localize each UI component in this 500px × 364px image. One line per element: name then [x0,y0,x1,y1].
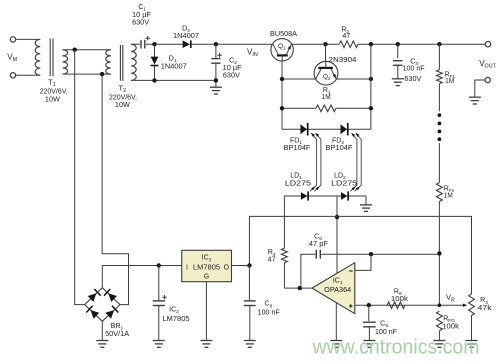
node op-amp output [298,286,302,290]
resistor RF1 [438,44,440,70]
node IC2 cap top [157,263,161,267]
wire right AC column with jog [102,74,128,305]
bridge rectifier BR1 [85,288,120,322]
node C2 bottom [214,78,218,82]
node IC3 output [247,263,251,267]
transformer T2 secondary winding [131,44,136,80]
svg-text:IC2: IC2 [169,307,179,316]
input terminal VM top [10,37,15,42]
resistor R6 [387,302,405,309]
svg-text:630V: 630V [132,20,149,27]
svg-text:1M: 1M [322,94,331,101]
transistor Q2 2N3904 [314,61,338,85]
op-amp minus sign [349,270,352,272]
output terminal VOUT lower [485,77,490,82]
wire Q2 collector [325,44,327,61]
node junction top link [73,48,77,52]
wire FD row [282,128,371,130]
wire T2 secondary top to C1 [131,43,140,45]
svg-text:LD275: LD275 [331,181,357,188]
wire VM bottom to T1 [16,74,41,76]
light arrows optocoupler 2 [350,133,357,191]
wire R4 column from LD row [283,196,285,248]
node C3 top [396,42,400,46]
svg-text:47 pF: 47 pF [309,241,328,248]
svg-text:10W: 10W [115,102,130,109]
light arrows optocoupler 1 [310,133,317,191]
svg-text:1N4007: 1N4007 [173,33,199,40]
node emitter-base left [280,77,284,81]
svg-text:O: O [224,264,230,271]
node D1 top [152,42,156,46]
svg-text:100 nF: 100 nF [258,310,280,317]
node C9 tap [367,303,371,307]
svg-text:VR: VR [446,293,455,304]
diode D2 [183,40,190,48]
node RF1 top [437,42,441,46]
wire LD row to ground [365,196,367,205]
svg-text:100k: 100k [391,296,409,303]
svg-text:220V/6V,: 220V/6V, [40,88,68,95]
resistor R2 [339,41,358,48]
node feedback chain tap [437,251,441,255]
wire T2 secondary bottom [131,79,216,81]
transistor Q1 BU508A [271,39,293,61]
wire op-amp Vminus to ground [335,303,337,341]
svg-text:www.cntronics.com: www.cntronics.com [312,336,480,359]
svg-text:BP104F: BP104F [284,145,311,152]
led LD1 LD275 [301,192,307,200]
wire Q2 emitter out [336,78,371,80]
potentiometer R3 wiper arrow [463,304,467,307]
svg-text:BU508A: BU508A [270,31,297,38]
bridge diode bottom-left [91,310,100,319]
svg-text:G: G [204,274,209,281]
svg-text:50V/1A: 50V/1A [105,331,129,338]
transformer T1 secondary winding [63,50,68,74]
svg-text:VM: VM [7,53,17,64]
ground IC3 G [200,341,212,348]
wire noninverting input to R3 [355,304,463,306]
node Q2 collector [323,42,327,46]
node C2 top [214,42,218,46]
wire IC3 output [232,265,250,267]
wire to inverting input [355,254,371,270]
capacitor C3 [397,44,399,58]
capacitor IC2 (LM7805 label) [158,266,160,301]
wire IC3 G to ground [205,282,207,341]
svg-text:I: I [186,264,188,271]
photodiode FD2 BP104F [341,124,348,134]
capacitor C9 [368,305,370,321]
ground C2 [210,87,222,94]
resistor RFG [437,311,443,331]
ground RFG [433,341,445,348]
node R1 right [369,106,373,110]
svg-text:220V/6V,: 220V/6V, [109,95,137,102]
bridge diode left-top [88,293,97,302]
node Q2 emitter right [369,77,373,81]
ground IC2 cap [153,341,165,348]
node D1 bottom [152,78,156,82]
svg-text:47: 47 [268,256,276,263]
input terminal VM bottom [10,73,15,78]
svg-text:47: 47 [342,33,350,40]
wire Q1 emitter down [281,61,283,129]
ground VOUT [469,97,481,104]
node C6 right [369,252,373,256]
svg-text:2N3904: 2N3904 [329,57,357,64]
svg-text:LD275: LD275 [285,181,311,188]
wire C1 to D2 [146,43,183,45]
regulator IC3 LM7805 box [182,250,232,281]
svg-text:1M: 1M [444,193,453,200]
resistor R4 [282,248,288,262]
svg-text:C8: C8 [265,301,273,310]
wire LD row to op-amp supply [336,196,338,274]
node right column top [369,42,373,46]
svg-text:47k: 47k [478,305,493,312]
capacitor C1 [141,40,145,49]
diode D1 [154,44,156,56]
svg-text:1M: 1M [445,78,454,85]
bridge diode right-top [108,293,117,302]
svg-text:T2: T2 [118,84,126,95]
transformer T2 primary winding [106,50,111,74]
ground op-amp [330,341,342,348]
svg-text:10 µF: 10 µF [223,65,242,72]
wire VM top to T1 [16,38,41,40]
wire Q1 out to R2 [291,43,339,45]
ground C3 [392,79,404,86]
wire IC3 input [102,265,181,267]
wire LD row [284,195,366,197]
capacitor C6 feedback [301,254,316,288]
wire R2 to VOUT [358,43,485,45]
wire VOUT lower to ground [475,80,485,97]
capacitor C8 [248,266,250,301]
svg-text:10W: 10W [45,97,60,104]
node chain dots [438,113,442,117]
ground R3 [466,341,478,348]
ground BR1 [96,341,108,348]
svg-text:VOUT: VOUT [479,59,496,70]
svg-text:630V: 630V [404,76,421,83]
photodiode FD1 BP104F [300,124,307,134]
svg-text:BP104F: BP104F [326,145,353,152]
op-amp plus sign [349,304,353,308]
svg-text:T1: T1 [48,78,56,89]
bridge diode bottom-right [105,310,114,319]
led LD2 LD275 [341,192,347,200]
node junction bottom link [100,72,104,76]
wire bridge bottom to ground [101,321,103,340]
svg-text:OPA364: OPA364 [324,287,351,294]
ground LD row [360,205,372,211]
wire T1 secondary top to T2 primary [63,49,111,51]
svg-text:630V: 630V [223,72,240,79]
svg-text:100 nF: 100 nF [403,65,425,72]
wire left AC column [75,50,85,305]
wire D2 to Q1 [192,43,276,45]
wire bridge top to IC3 line [101,266,103,288]
potentiometer R3 [469,294,475,316]
capacitor C2 [215,44,217,59]
svg-text:VIN: VIN [247,47,258,58]
svg-text:1N4007: 1N4007 [161,63,187,70]
svg-text:LM7805: LM7805 [193,264,220,271]
svg-text:LM7805: LM7805 [163,316,190,323]
wire op-amp output [284,287,312,289]
wire right column upper [370,44,372,129]
node R1 left [280,106,284,110]
svg-text:100k: 100k [442,324,460,331]
wire Q1 emitter to Q2 base [282,78,316,80]
5V rail wire [249,216,471,294]
resistor R1 [282,107,316,109]
transformer T1 core [49,39,51,77]
node VR [438,303,442,307]
node supply on 5V line [335,215,339,219]
wire T1 secondary bottom to T2 primary [63,73,111,75]
ground C8 [244,341,256,348]
ground C9 [363,341,375,348]
output terminal VOUT [485,42,490,47]
transformer T2 core [119,45,121,81]
op-amp IC1 OPA364 [312,263,355,314]
svg-text:C9: C9 [380,321,388,330]
resistor RFn [438,143,440,183]
svg-text:10 µF: 10 µF [132,12,151,19]
transformer T1 primary winding [35,39,40,75]
